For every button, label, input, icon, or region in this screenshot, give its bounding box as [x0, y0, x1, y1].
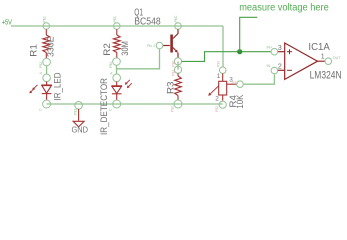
svg-text:P$2: P$2	[39, 62, 43, 68]
node Q1 collector rail junction	[175, 23, 182, 30]
node R1 bottom pin	[43, 58, 51, 66]
node pot R4 pin 1	[219, 67, 226, 74]
node GND tap junction	[75, 102, 83, 110]
svg-text:IN-: IN-	[267, 64, 273, 68]
wire emitter to R3	[177, 61, 179, 69]
transistor Q1 body	[170, 35, 173, 53]
node LED1 cathode rail junction	[43, 100, 51, 108]
svg-text:measure voltage here: measure voltage here	[239, 2, 329, 13]
svg-text:R3: R3	[165, 82, 175, 95]
svg-text:+5V: +5V	[2, 17, 12, 26]
node R1 top rail junction	[43, 23, 50, 30]
svg-text:P$1: P$1	[217, 61, 221, 67]
resistor R2	[116, 29, 118, 35]
svg-text:P$1: P$1	[113, 16, 117, 22]
potentiometer R4 10K	[219, 74, 237, 101]
svg-text:C: C	[39, 108, 43, 111]
detector incoming light arrows	[127, 80, 130, 83]
svg-text:P$2: P$2	[109, 62, 113, 68]
wire bottom rail	[47, 103, 223, 105]
node R3 top pin	[174, 66, 181, 73]
svg-text:30M: 30M	[120, 41, 130, 56]
wire +5V drop to pot R4 pin 1	[222, 26, 224, 67]
svg-text:R2: R2	[102, 43, 112, 56]
node pot pin 2 rail junction	[219, 101, 226, 108]
node LED1 anode pin	[43, 74, 51, 82]
op-amp input pin stubs	[278, 51, 285, 53]
svg-text:2: 2	[215, 96, 219, 103]
wire R2 to detector	[116, 65, 118, 74]
node op-amp +in pin	[271, 48, 278, 55]
svg-text:LM324N: LM324N	[310, 70, 342, 82]
resistor R1	[45, 29, 47, 35]
wire R1 to LED1	[46, 66, 48, 74]
wire wiper to op-amp inverting input	[243, 74, 274, 84]
node R2 bottom pin	[113, 58, 121, 66]
node op-amp out pin	[325, 58, 332, 65]
svg-text:10K: 10K	[235, 94, 245, 109]
svg-text:R1: R1	[28, 44, 38, 57]
svg-text:2: 2	[278, 63, 282, 70]
svg-text:GND: GND	[72, 126, 89, 135]
node pot wiper pin 3	[237, 81, 244, 88]
node Q1 emitter pin	[174, 58, 181, 65]
op-amp plus mark	[287, 51, 292, 53]
svg-text:P$1: P$1	[171, 70, 175, 76]
svg-text:Pin 2: Pin 2	[147, 44, 155, 48]
node Q1 base pin	[156, 42, 163, 49]
LED1 IR_LED diode	[41, 82, 52, 101]
svg-text:P$E: P$E	[171, 60, 175, 67]
op-amp minus mark	[287, 69, 292, 71]
svg-text:1: 1	[217, 73, 221, 80]
wire +5V top rail	[11, 25, 223, 27]
node R3 bottom rail junction	[174, 100, 182, 108]
wire base tap to Q1	[117, 49, 160, 69]
svg-text:BC548: BC548	[134, 17, 161, 28]
node detector anode pin	[113, 74, 121, 82]
svg-text:3: 3	[278, 45, 282, 52]
op-amp IC1A triangle	[285, 43, 318, 79]
node detector cathode rail junction	[113, 100, 121, 108]
op-amp output pin stub	[318, 60, 326, 62]
svg-text:P$1: P$1	[74, 109, 78, 115]
svg-text:P$2: P$2	[215, 106, 219, 112]
ground GND symbol	[78, 109, 80, 121]
svg-text:P$3: P$3	[232, 81, 238, 85]
svg-text:IC1A: IC1A	[308, 42, 330, 53]
svg-text:IR_DETECTOR: IR_DETECTOR	[99, 78, 109, 135]
svg-text:IN+: IN+	[267, 46, 273, 50]
svg-text:C: C	[109, 108, 113, 111]
node R2 top rail junction	[114, 23, 121, 30]
node measure junction dot	[237, 49, 242, 54]
svg-text:P$2: P$2	[171, 106, 175, 112]
resistor R3	[177, 73, 179, 76]
LED1 emission arrows	[34, 85, 38, 89]
node op-amp -in pin	[271, 67, 278, 74]
pot wiper arrow	[210, 86, 218, 94]
wire emitter to op-amp non-inverting input	[182, 52, 272, 62]
svg-text:330E: 330E	[45, 37, 55, 58]
svg-text:OUT: OUT	[333, 56, 341, 60]
svg-text:P$1: P$1	[43, 16, 47, 22]
wire measure stub	[240, 17, 258, 51]
svg-text:1: 1	[321, 53, 325, 60]
diode D1 IR_DETECTOR	[111, 82, 122, 101]
svg-text:P$C: P$C	[174, 15, 178, 22]
svg-text:IR_LED: IR_LED	[52, 72, 62, 100]
